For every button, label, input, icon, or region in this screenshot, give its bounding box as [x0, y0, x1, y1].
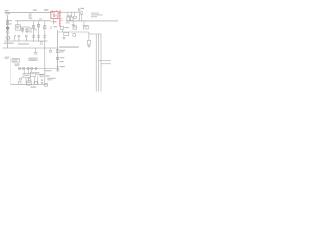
wire stub y74.2	[38, 73, 44, 75]
wire bus line 2	[98, 34, 100, 92]
wire rail y20.8 left	[15, 20, 51, 22]
red pin marks	[50, 27, 52, 29]
note text top-right	[91, 13, 103, 18]
connector J1	[6, 12, 10, 15]
part below U3 left	[20, 78, 22, 80]
label net x45	[45, 70, 51, 71]
inline part x19.5	[19, 68, 21, 70]
wire bus line 1	[95, 35, 97, 92]
wire stub out 2	[101, 63, 111, 65]
resistor R1	[6, 20, 12, 22]
resistor R11	[67, 17, 70, 21]
label box B2	[29, 58, 37, 61]
wire bus top y34	[89, 33, 101, 35]
relay RY1 box	[15, 25, 20, 30]
label TP1	[15, 64, 20, 66]
resistor R3	[21, 27, 23, 34]
TVS D1 flag	[15, 35, 17, 41]
wire chain x38.6	[38, 21, 40, 41]
part at rail end	[45, 83, 48, 86]
label column net names	[29, 14, 32, 19]
label box B1	[12, 59, 19, 63]
regulator U1	[64, 32, 69, 35]
wire y12.2 right of TR1	[58, 11, 79, 13]
part small x50.5	[50, 48, 52, 52]
wire under TR1	[51, 21, 57, 23]
wire drop x84	[83, 21, 85, 26]
wire drop to relay box	[17, 21, 19, 25]
wire stub to ground	[72, 21, 74, 24]
diode D2	[57, 66, 65, 69]
inductor L1	[18, 82, 21, 85]
text row under rail left	[4, 43, 14, 44]
transformer TR1 label	[52, 12, 55, 13]
capacitor C6	[34, 48, 38, 54]
wire drop x88.9	[88, 32, 90, 40]
inline part x28.2	[27, 68, 29, 70]
label above top rail x33	[33, 9, 37, 10]
node VREF	[57, 61, 63, 63]
wire stub out 1	[99, 60, 111, 62]
node label AC IN	[5, 57, 10, 59]
wire drops cluster	[68, 12, 75, 17]
capacitor C7	[26, 81, 31, 85]
varistor RV1	[6, 31, 9, 34]
lamp DS1	[6, 36, 11, 40]
wire left vertical	[7, 15, 9, 48]
resistor R7	[44, 26, 46, 29]
capacitor C5	[25, 35, 28, 41]
dashed boundary line	[10, 59, 12, 85]
fuse F1	[6, 27, 9, 29]
part right of U4	[37, 72, 39, 74]
capacitor C3	[43, 36, 46, 37]
diode D3	[41, 80, 43, 82]
label under TR1	[54, 26, 58, 27]
wire drop x79.4	[78, 12, 80, 21]
wire main rail y48	[3, 47, 58, 49]
wire rail y32	[58, 31, 89, 33]
transformer TR1 highlighted box	[51, 11, 58, 18]
capacitor C8	[34, 82, 37, 85]
ground GND2	[41, 81, 44, 84]
wire y27	[21, 26, 31, 28]
inline part x31.6	[31, 68, 33, 70]
red corner ticks on TR1	[52, 9, 57, 11]
resistor R9	[60, 26, 68, 29]
label column Q1 values	[29, 28, 32, 33]
wire drop x81.6	[81, 14, 83, 21]
wire stubs into boxes	[24, 69, 35, 84]
red highlighted net	[59, 10, 61, 27]
part below rail y41	[40, 42, 42, 44]
wire relay drop	[37, 76, 39, 84]
annotation text row y47	[59, 46, 79, 47]
capacitor C9	[78, 8, 80, 12]
label above rail x39	[39, 19, 42, 20]
wire drop x62.8	[62, 29, 64, 32]
resistor R4	[26, 27, 28, 34]
resistor R10	[73, 26, 77, 29]
label above R11	[67, 15, 72, 16]
opto U3 box	[23, 74, 30, 78]
junction dots on rail y41	[33, 41, 45, 42]
wire main vertical x57.7	[57, 30, 59, 69]
resistor R2	[6, 23, 11, 25]
capacitor C1	[32, 36, 35, 37]
part below U3 right	[28, 79, 30, 81]
opto U4 box	[30, 72, 35, 76]
wire TR1 secondary drop	[52, 19, 54, 25]
resistor R6	[37, 24, 39, 27]
thermistor RT1	[57, 57, 65, 59]
capacitor C2	[37, 36, 40, 37]
wire bus line 3	[100, 34, 102, 92]
wire bottom rail y84.3	[11, 83, 48, 85]
wire rail y20.9 right	[66, 20, 118, 22]
zener D5	[81, 12, 83, 15]
wire rail y68.4	[18, 67, 56, 69]
IC U2	[83, 25, 88, 29]
capacitor C4	[18, 35, 21, 41]
label C9 value	[81, 8, 84, 9]
wire top-left horizontal	[4, 11, 51, 13]
varistor RV2	[40, 75, 49, 77]
ground GND3	[62, 37, 65, 39]
inline part x23.5	[23, 68, 25, 70]
wire chain x44.8	[44, 21, 46, 84]
red net tick marks	[59, 11, 63, 25]
wire chain x33.6	[33, 21, 35, 41]
label above top rail x44	[44, 9, 48, 11]
diode D4	[54, 21, 56, 23]
resistor R5	[32, 25, 34, 28]
label below R5	[34, 29, 37, 30]
wire rail y41	[5, 40, 48, 42]
capacitor C10	[74, 16, 76, 18]
ground GND4	[72, 24, 75, 26]
label under bottom rail	[31, 86, 37, 87]
label above x66	[66, 22, 70, 23]
label above rail x30	[30, 18, 33, 19]
inline part x36	[35, 68, 37, 70]
transformer TR1 windings	[54, 14, 57, 17]
ground GND5	[87, 45, 91, 47]
resistor R8	[56, 50, 65, 53]
ground GND1	[56, 70, 59, 72]
text row under rail right	[18, 43, 29, 44]
node label PSU text	[5, 10, 9, 11]
capacitor C11	[87, 40, 90, 44]
label rows right of rail end	[47, 78, 56, 81]
part below rail x74	[73, 34, 76, 37]
resistor R12	[70, 17, 73, 21]
